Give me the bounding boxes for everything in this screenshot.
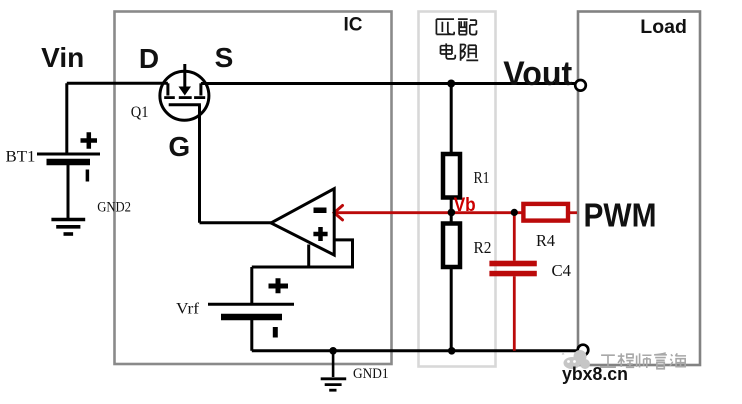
terminal Vout (open circle) — [575, 80, 586, 91]
label Q1 — [131, 104, 149, 121]
wire op-amp output to gate — [200, 105, 272, 223]
svg-text:Vb: Vb — [454, 195, 476, 216]
IC label — [344, 14, 363, 35]
junction R4/C4 — [511, 209, 518, 216]
label R1 — [474, 168, 490, 187]
label pei (match) char2 — [458, 19, 477, 34]
svg-text:Load: Load — [640, 16, 687, 38]
label S — [215, 42, 234, 73]
watermark char shi — [637, 353, 652, 368]
wire op-amp plus input loop — [252, 240, 353, 267]
svg-text:S: S — [215, 42, 234, 73]
node Vb junction dot — [448, 209, 456, 217]
svg-text:Vout: Vout — [503, 55, 572, 93]
label GND1 — [353, 366, 389, 382]
label PWM — [584, 196, 657, 233]
ground GND2 — [51, 220, 85, 235]
red wire Vb to op-amp inverting input and to R4 — [334, 206, 523, 220]
wire Vin horizontal to Q1 drain — [67, 82, 168, 85]
transistor Q1 (MOSFET) — [160, 64, 209, 120]
watermark char cheng — [618, 353, 634, 367]
label Vb — [454, 195, 476, 216]
label pi (match) char1 — [436, 19, 454, 34]
label dian (resistor) char1 — [441, 43, 456, 59]
svg-text:C4: C4 — [552, 261, 572, 280]
svg-text:R4: R4 — [536, 231, 555, 250]
wire BT1 to GND2 — [67, 165, 70, 218]
label Vrf — [176, 301, 200, 318]
svg-text:PWM: PWM — [584, 196, 657, 233]
wire R2 to bottom rail — [450, 267, 453, 351]
junction R2/bottom — [448, 347, 456, 355]
label Vout — [503, 55, 572, 93]
svg-text:D: D — [139, 43, 159, 74]
svg-text:GND2: GND2 — [97, 200, 131, 216]
svg-text:G: G — [168, 131, 190, 162]
node Vin label — [41, 42, 84, 73]
battery BT1 — [37, 132, 100, 181]
svg-text:R2: R2 — [474, 238, 492, 257]
label R2 — [474, 238, 492, 257]
label zu (resistor) char2 — [461, 44, 479, 61]
IC block box — [115, 12, 392, 365]
junction GND1 — [329, 347, 337, 355]
watermark char gong — [600, 355, 616, 367]
watermark ybx8.cn — [562, 364, 628, 384]
wire feedback tap to plus rail — [307, 245, 310, 268]
red wire junction to C4 — [513, 213, 516, 261]
wire Vout node down to R1 — [450, 84, 453, 155]
ground GND1 — [321, 351, 347, 390]
svg-text:IC: IC — [344, 14, 363, 35]
watermark logo — [562, 350, 590, 369]
svg-text:ybx8.cn: ybx8.cn — [562, 364, 628, 384]
svg-text:Vin: Vin — [41, 42, 84, 73]
label R4 — [536, 231, 555, 250]
wire R1 to Vb — [450, 198, 453, 224]
red wire R4 to Load — [568, 211, 577, 214]
svg-text:BT1: BT1 — [6, 149, 36, 166]
Load block box — [578, 12, 700, 366]
junction at Vout/R1 — [447, 80, 455, 88]
label D — [139, 43, 159, 74]
terminal bottom (open circle) — [578, 345, 589, 356]
watermark char kan — [654, 353, 667, 369]
capacitor C4 — [489, 261, 536, 277]
watermark char hai — [670, 353, 686, 366]
label G — [168, 131, 190, 162]
resistor R1 — [443, 154, 460, 198]
wire S to Vout terminal — [201, 82, 575, 85]
op-amp U1 — [271, 189, 334, 255]
bottom rail wire — [252, 349, 578, 352]
svg-text:GND1: GND1 — [353, 366, 389, 382]
resistor R2 — [443, 224, 460, 268]
resistor R4 — [523, 204, 568, 221]
svg-text:Vrf: Vrf — [176, 301, 200, 318]
matching-resistor block box (match-resistor) — [419, 12, 496, 367]
svg-text:R1: R1 — [474, 168, 490, 187]
battery Vrf — [208, 267, 294, 351]
label BT1 — [6, 149, 36, 166]
red wire C4 to bottom rail — [513, 276, 516, 351]
Load label — [640, 16, 687, 38]
label C4 — [552, 261, 572, 280]
svg-text:Q1: Q1 — [131, 104, 149, 121]
label GND2 — [97, 200, 131, 216]
wire Vin vertical to BT1 — [65, 83, 68, 152]
